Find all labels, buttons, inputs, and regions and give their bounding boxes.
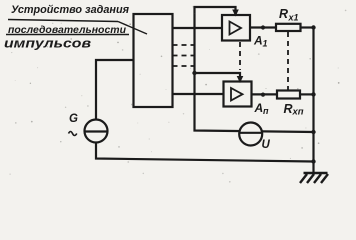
svg-text:Устройство задания: Устройство задания — [11, 4, 130, 16]
svg-text:х1: х1 — [288, 13, 299, 23]
svg-text:импульсов: импульсов — [4, 36, 91, 51]
svg-text:последовательности: последовательности — [8, 24, 127, 36]
svg-text:R: R — [284, 102, 293, 116]
svg-text:A: A — [253, 34, 263, 48]
svg-text:G: G — [69, 113, 78, 125]
svg-text:п: п — [263, 106, 269, 116]
svg-text:U: U — [262, 139, 271, 151]
svg-text:1: 1 — [263, 39, 268, 49]
svg-text:хп: хп — [292, 107, 304, 118]
svg-text:R: R — [279, 7, 288, 21]
svg-text:A: A — [254, 101, 264, 115]
